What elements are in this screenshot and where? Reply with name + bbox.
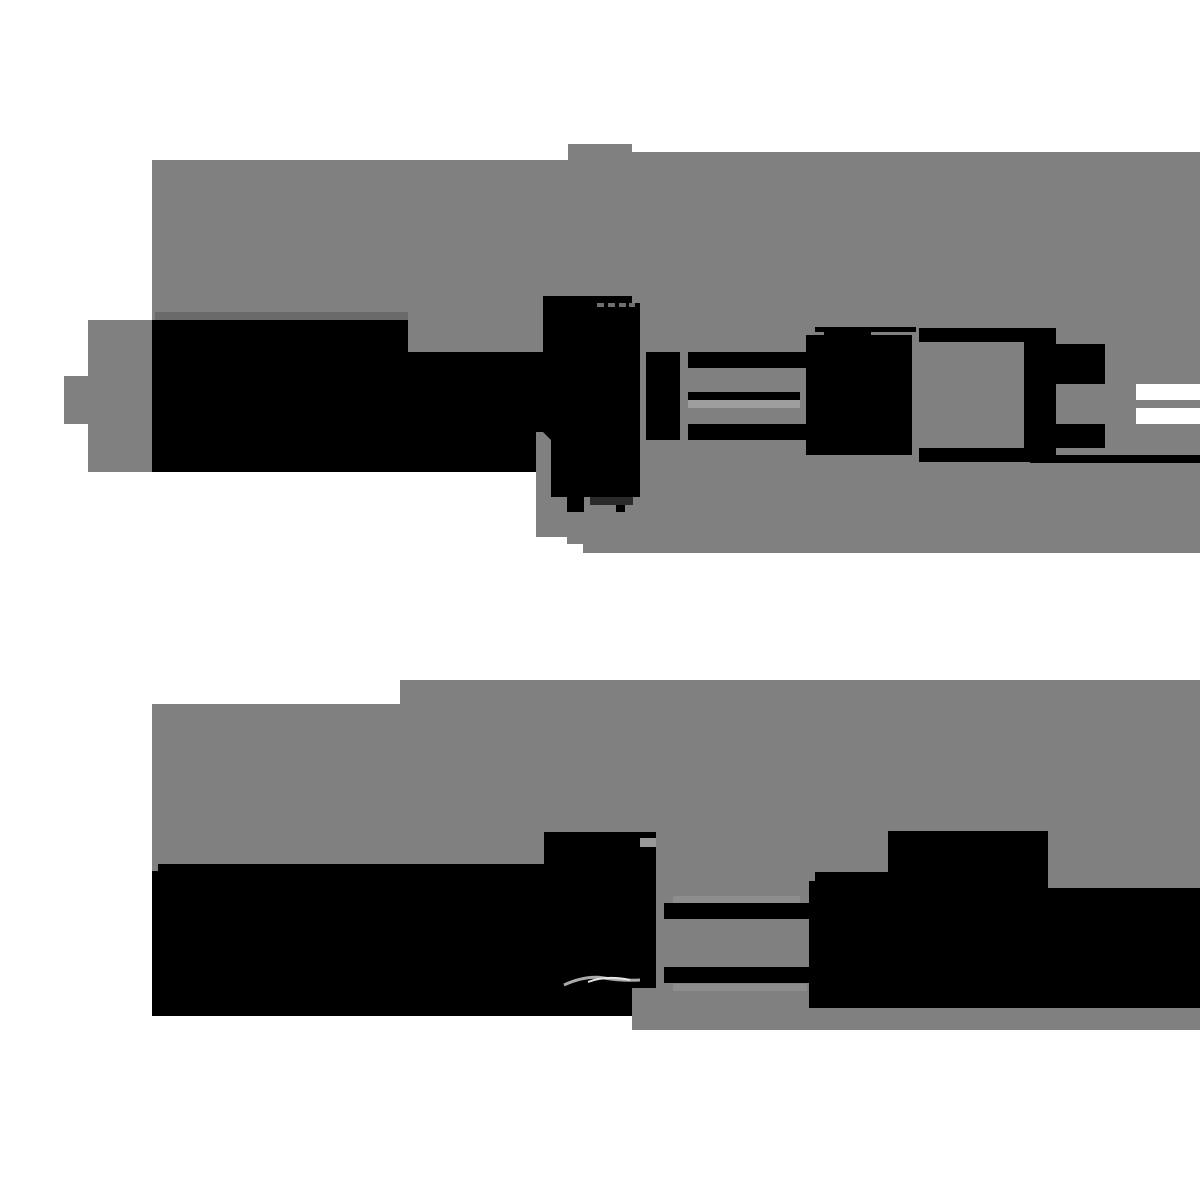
dark shading row above block A <box>155 312 408 320</box>
light notch line 2 mass left <box>640 838 656 847</box>
light strip below equals line 2 <box>673 984 807 991</box>
blob B top squiggle <box>824 331 871 337</box>
slab dark under-strip <box>590 497 633 505</box>
corner nub line 2 mass left <box>152 864 158 871</box>
triple bar bottom line 1 <box>688 424 808 440</box>
equals bottom bar line 2 <box>664 967 809 983</box>
thin rule line 1 <box>1030 455 1200 463</box>
equals top bar line 2 <box>664 903 809 919</box>
frame bottom bar line 1 <box>919 448 1056 462</box>
blob B top thin bar <box>815 327 916 332</box>
slab top-right notch <box>632 296 640 303</box>
slab foot 2 <box>616 497 625 512</box>
triple bar middle thin line 1 <box>688 392 800 400</box>
light gray band line 1 <box>688 400 800 408</box>
gray panel line 2 <box>152 680 1200 1030</box>
white equals sign line 1 <box>1136 384 1200 400</box>
black mass right line 2 <box>809 831 1200 1008</box>
black blob B line 1 <box>806 335 912 455</box>
black column line 1 <box>646 352 680 440</box>
slab foot 1 <box>567 497 584 512</box>
frame top bar line 1 <box>919 328 1056 342</box>
black tall slab line 1 <box>543 296 640 497</box>
black block A line 1 <box>152 320 544 472</box>
frame arm bottom line 1 <box>1056 424 1105 448</box>
black mass left line 2 <box>152 832 656 1016</box>
light strip above equals line 2 <box>673 896 800 903</box>
frame right slab line 1 <box>1024 332 1056 452</box>
slab top dash marks <box>597 303 635 307</box>
light swoosh line 2 mass left <box>564 977 640 985</box>
gray panel line 1 <box>64 144 1200 553</box>
frame arm top line 1 <box>1056 344 1105 384</box>
triple bar top line 1 <box>688 352 808 368</box>
